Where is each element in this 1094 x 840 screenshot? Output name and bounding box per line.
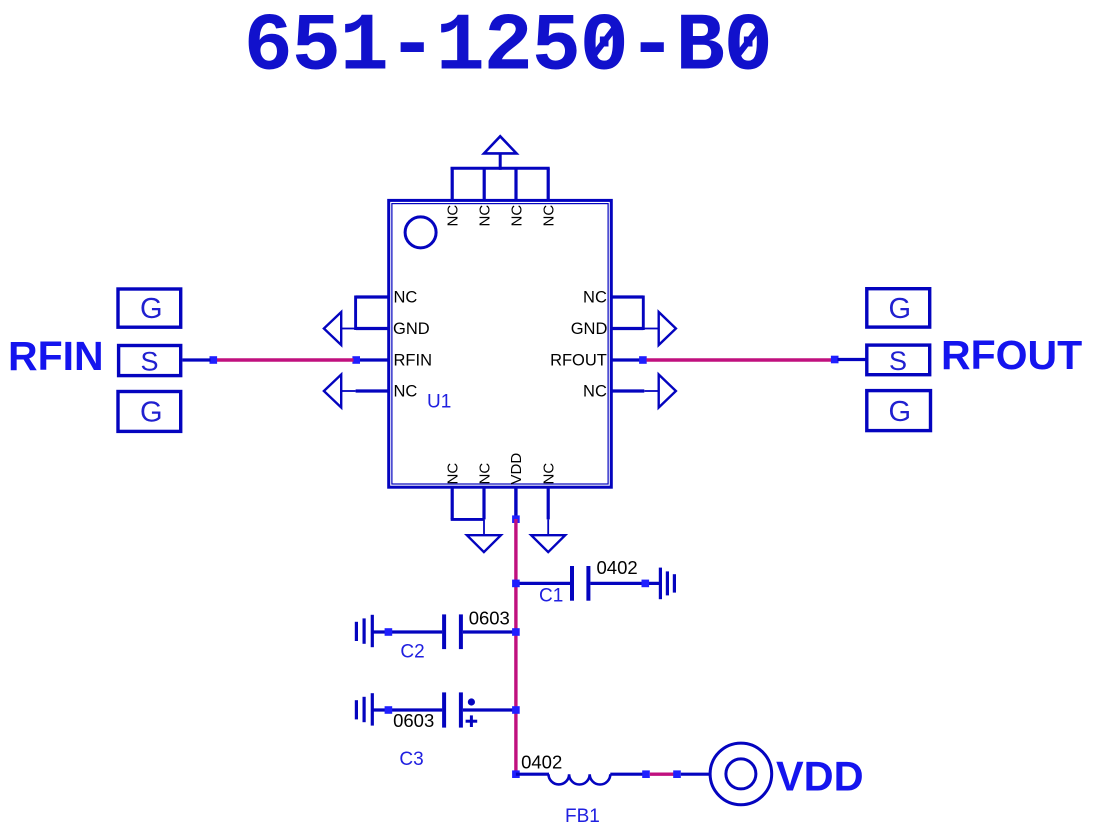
svg-text:C2: C2 bbox=[400, 642, 424, 663]
node junction RFOUT at connector bbox=[831, 356, 839, 364]
wire connector S stub left bbox=[182, 358, 210, 361]
svg-text:0402: 0402 bbox=[521, 752, 562, 773]
node junction C1 right bbox=[642, 580, 650, 588]
capacitor C3 polarized bbox=[374, 692, 516, 727]
svg-text:S: S bbox=[141, 347, 159, 377]
top off-page arrow bbox=[484, 136, 517, 170]
node junction VDD connector bbox=[673, 770, 681, 778]
connector pad G left-top bbox=[118, 289, 181, 327]
node junction RFIN at U1 bbox=[352, 356, 360, 364]
pin RFIN bbox=[358, 358, 388, 361]
svg-text:NC: NC bbox=[583, 289, 607, 307]
ground arrow bottom right bbox=[531, 519, 565, 552]
ground bars C3 bbox=[356, 693, 372, 725]
ground arrow bottom left bbox=[467, 519, 501, 552]
pin NC top1 bbox=[451, 168, 454, 201]
wire to VDD connector bbox=[681, 773, 710, 776]
node junction C2 left bbox=[385, 628, 393, 636]
node junction C1 left bbox=[512, 580, 520, 588]
node junction RFIN at connector bbox=[210, 356, 218, 364]
ferrite bead FB1 bbox=[516, 774, 648, 784]
capacitor C2 bbox=[374, 614, 516, 649]
pin NC top4 bbox=[547, 168, 550, 201]
svg-text:0402: 0402 bbox=[597, 557, 638, 578]
pin NC top2 bbox=[483, 168, 486, 201]
pin NC left-top bbox=[356, 296, 388, 331]
wire VDD rail vertical bbox=[514, 519, 517, 774]
pin VDD bbox=[514, 486, 517, 518]
connector pad G right-bottom bbox=[867, 391, 931, 431]
VDD connector circle bbox=[710, 743, 772, 805]
node junction C3 left bbox=[385, 706, 393, 714]
connector pad S left bbox=[119, 346, 181, 377]
ground arrow right GND bbox=[643, 312, 676, 345]
svg-text:VDD: VDD bbox=[776, 752, 864, 799]
svg-text:GND: GND bbox=[571, 320, 608, 338]
svg-text:NC: NC bbox=[394, 289, 418, 307]
pin NC bottom4 bbox=[547, 486, 550, 519]
svg-text:G: G bbox=[889, 396, 912, 428]
svg-text:U1: U1 bbox=[427, 392, 451, 413]
ground bars C1 bbox=[660, 568, 674, 600]
svg-text:0603: 0603 bbox=[393, 710, 434, 731]
wire connector S stub right bbox=[838, 358, 866, 361]
node junction C3 right bbox=[512, 706, 520, 714]
wire RFIN net bbox=[217, 358, 354, 361]
svg-text:RFIN: RFIN bbox=[8, 333, 104, 379]
ground arrow left NC bbox=[324, 375, 356, 408]
pin NC bottom1 bbox=[451, 486, 484, 519]
pin NC left-bottom bbox=[356, 389, 388, 392]
pin GND left bbox=[356, 327, 388, 330]
pin NC right-top bbox=[612, 296, 643, 331]
node junction FB right bbox=[642, 770, 650, 778]
node junction FB corner bbox=[512, 770, 520, 778]
wire top rail bbox=[451, 167, 550, 170]
svg-text:NC: NC bbox=[445, 463, 462, 485]
pin NC right-bottom bbox=[612, 389, 644, 392]
svg-text:FB1: FB1 bbox=[565, 806, 600, 827]
svg-text:RFOUT: RFOUT bbox=[941, 332, 1082, 378]
svg-text:651-1250-B0: 651-1250-B0 bbox=[244, 1, 772, 94]
pin NC bottom2 bbox=[482, 486, 485, 519]
svg-text:NC: NC bbox=[394, 383, 418, 401]
svg-text:NC: NC bbox=[445, 205, 462, 227]
op-amp U1 body bbox=[389, 200, 612, 487]
svg-text:NC: NC bbox=[583, 383, 607, 401]
capacitor C1 bbox=[516, 566, 659, 601]
svg-text:G: G bbox=[889, 293, 912, 325]
svg-text:G: G bbox=[140, 293, 163, 325]
node junction C2 right bbox=[512, 628, 520, 636]
node junction RFOUT at U1 bbox=[639, 356, 647, 364]
connector pad G left-bottom bbox=[118, 392, 181, 432]
ground arrow right NC bbox=[644, 375, 676, 408]
svg-text:RFIN: RFIN bbox=[394, 352, 433, 370]
svg-text:NC: NC bbox=[541, 463, 558, 485]
svg-text:S: S bbox=[889, 346, 907, 376]
pin NC top3 bbox=[514, 168, 517, 201]
connector pad G right-top bbox=[867, 289, 930, 327]
title 651-1250-B0 bbox=[244, 1, 772, 94]
ground arrow left GND bbox=[324, 312, 356, 345]
ground bars C2 bbox=[356, 615, 372, 647]
svg-text:RFOUT: RFOUT bbox=[550, 352, 607, 370]
wire VDD net segment bbox=[650, 773, 674, 776]
svg-text:G: G bbox=[140, 397, 163, 429]
wire RFOUT net bbox=[647, 358, 832, 361]
svg-text:NC: NC bbox=[477, 205, 494, 227]
node junction VDD pin bbox=[512, 515, 520, 523]
svg-text:GND: GND bbox=[393, 320, 430, 338]
pin GND right bbox=[612, 327, 643, 330]
svg-text:0603: 0603 bbox=[469, 608, 510, 629]
svg-text:NC: NC bbox=[541, 205, 558, 227]
svg-text:C1: C1 bbox=[539, 586, 563, 607]
svg-text:NC: NC bbox=[508, 205, 525, 227]
svg-text:VDD: VDD bbox=[508, 453, 525, 485]
pin RFOUT bbox=[612, 358, 641, 361]
svg-text:NC: NC bbox=[476, 463, 493, 485]
connector pad S right bbox=[867, 345, 930, 376]
svg-text:C3: C3 bbox=[399, 749, 423, 770]
